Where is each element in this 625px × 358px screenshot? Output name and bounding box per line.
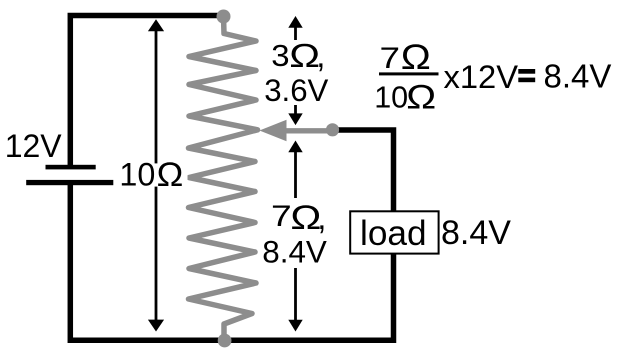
potentiometer R1 zigzag [189, 17, 258, 341]
load box [350, 211, 438, 253]
node dot: wiper [326, 123, 339, 136]
svg-text:,: , [316, 37, 325, 74]
wire: left vertical + top horizontal to resistor top [70, 16, 224, 167]
wire: wiper to load branch (top horizontal + right vertical) [334, 130, 394, 212]
svg-text:10: 10 [374, 81, 408, 115]
measure arrow 3-ohm (double headed) [288, 16, 302, 125]
wire: left vertical below battery + bottom horizontal [70, 184, 393, 340]
svg-text:8.4V: 8.4V [441, 214, 511, 252]
wiper lead wire (gray) [285, 128, 333, 133]
wiper arrow of potentiometer [259, 120, 286, 141]
measure arrow 10-ohm (full height, double headed) [148, 19, 164, 331]
battery V1 top plate [46, 165, 96, 170]
svg-text:12V: 12V [5, 128, 63, 164]
formula fraction bar [379, 72, 439, 75]
measure arrow 7-ohm (double headed) [288, 141, 302, 332]
svg-text:Ω: Ω [406, 77, 436, 116]
svg-text:3.6V: 3.6V [264, 73, 328, 108]
svg-text:,: , [317, 199, 326, 236]
svg-text:Ω: Ω [401, 38, 431, 77]
svg-text:load: load [360, 214, 427, 253]
formula equals sign [518, 69, 535, 74]
svg-text:7: 7 [380, 42, 400, 75]
svg-text:10: 10 [119, 157, 155, 193]
svg-text:7: 7 [271, 199, 292, 233]
label 10-ohm (masks arrow) [118, 163, 188, 186]
svg-text:8.4V: 8.4V [544, 58, 612, 95]
svg-text:x12V: x12V [444, 58, 519, 95]
svg-text:3: 3 [271, 38, 289, 73]
svg-text:Ω: Ω [157, 156, 184, 194]
battery V1 bottom plate [26, 180, 113, 185]
node dot: resistor bottom [218, 334, 232, 348]
svg-text:8.4V: 8.4V [262, 234, 327, 269]
node dot: resistor top [217, 10, 231, 24]
